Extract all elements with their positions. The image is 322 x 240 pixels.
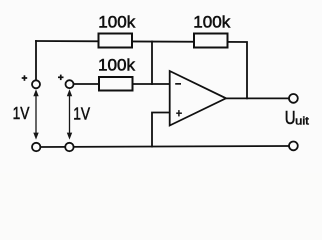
svg-text:100k: 100k [98, 13, 135, 32]
svg-text:U: U [285, 108, 296, 128]
svg-text:100k: 100k [193, 13, 230, 32]
svg-text:uit: uit [295, 115, 309, 127]
svg-text:1V: 1V [73, 103, 90, 123]
svg-text:1V: 1V [13, 103, 30, 123]
svg-text:100k: 100k [98, 56, 135, 75]
